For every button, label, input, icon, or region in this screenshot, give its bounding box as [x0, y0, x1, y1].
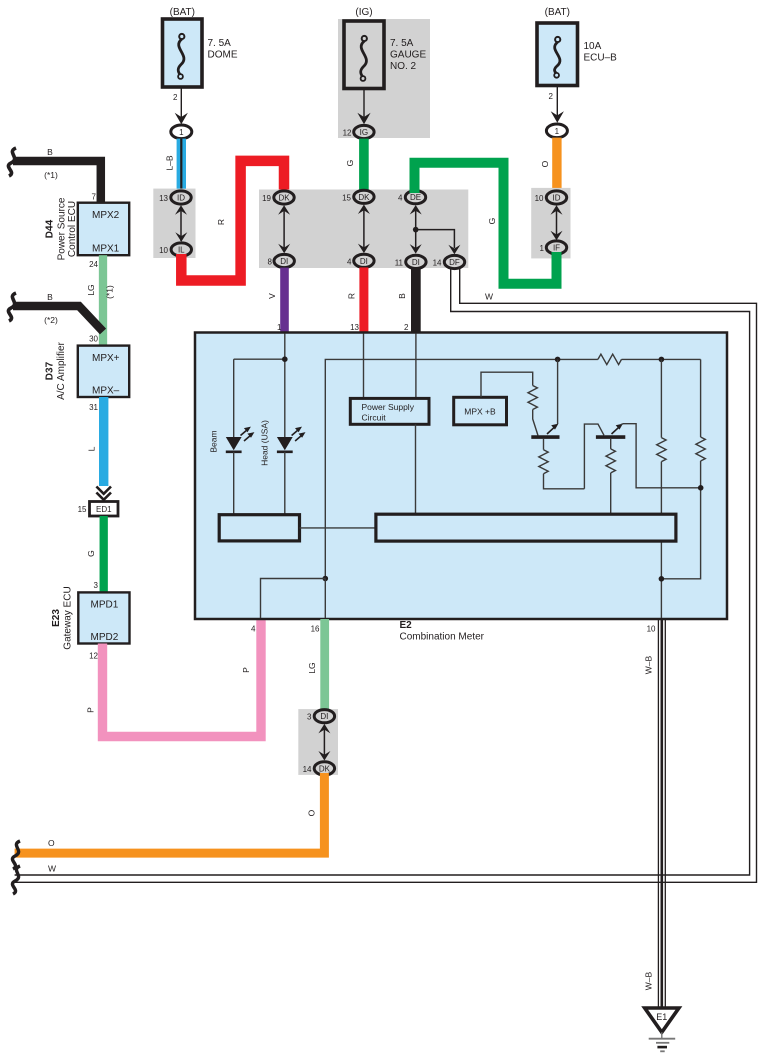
wire LG (*1) — [86, 255, 115, 345]
svg-text:A/C Amplifier: A/C Amplifier — [56, 341, 67, 399]
svg-text:ID: ID — [177, 194, 185, 203]
arrow DI-DK bottom — [318, 724, 330, 761]
wire G to gateway — [86, 516, 108, 592]
svg-text:DE: DE — [410, 193, 421, 202]
svg-text:DK: DK — [358, 193, 370, 202]
svg-text:Power Source: Power Source — [57, 197, 68, 260]
svg-text:(BAT): (BAT) — [545, 7, 570, 18]
svg-text:L–B: L–B — [165, 155, 175, 170]
node pin1 internal line — [284, 334, 286, 438]
resistor rail R1 — [598, 354, 622, 364]
svg-text:3: 3 — [307, 713, 312, 722]
ECU E23 Gateway ECU — [51, 586, 130, 660]
svg-text:7: 7 — [92, 193, 97, 202]
svg-text:31: 31 — [89, 403, 98, 412]
svg-text:LG: LG — [86, 284, 96, 295]
connector ED1 — [78, 502, 118, 517]
node pin13 internal line — [363, 334, 365, 399]
svg-text:Circuit: Circuit — [362, 413, 387, 423]
connector 14 DF — [433, 255, 465, 268]
transistor Q2 — [584, 424, 700, 489]
svg-text:10: 10 — [159, 246, 168, 255]
gauge block left rectangle — [219, 515, 299, 541]
svg-text:16: 16 — [311, 625, 320, 634]
svg-text:IF: IF — [553, 244, 560, 253]
connector 10 ID — [535, 191, 567, 204]
gauge block right rectangle — [376, 514, 676, 541]
svg-text:15: 15 — [342, 193, 351, 202]
svg-text:7. 5A: 7. 5A — [208, 38, 232, 49]
svg-text:4: 4 — [251, 625, 256, 634]
svg-text:2: 2 — [173, 93, 178, 102]
svg-text:1: 1 — [540, 244, 545, 253]
svg-text:G: G — [487, 218, 497, 225]
svg-text:W–B: W–B — [644, 971, 654, 990]
wire B black to meter pin 2 — [397, 269, 421, 334]
svg-text:2: 2 — [549, 92, 554, 101]
transistor Q1 — [531, 359, 559, 449]
wire LG from pin 16 — [307, 619, 329, 710]
fuse lead pin 2 — [173, 87, 188, 124]
gray band connector ID/IL — [153, 189, 195, 258]
svg-text:10: 10 — [535, 194, 544, 203]
svg-text:O: O — [307, 809, 317, 816]
svg-text:ED1: ED1 — [96, 505, 112, 514]
svg-text:MPX–: MPX– — [92, 386, 120, 397]
svg-text:R: R — [347, 293, 357, 299]
node dot rail right — [659, 357, 665, 363]
fuse ECU-B lead pin 2 — [549, 86, 564, 123]
svg-text:10: 10 — [647, 625, 656, 634]
arrow ID-IL — [175, 205, 187, 242]
wire PSU to gauge block — [415, 424, 417, 514]
svg-text:DF: DF — [449, 258, 460, 267]
LED Beam — [209, 427, 255, 515]
svg-text:DI: DI — [360, 257, 368, 266]
svg-text:DI: DI — [412, 258, 420, 267]
svg-text:IG: IG — [360, 128, 368, 137]
fuse 10A ECU-B (BAT) — [537, 7, 617, 86]
connector 1 IF — [540, 241, 567, 254]
resistor emitter Q2 — [606, 449, 615, 514]
connector oval 12 IG — [343, 125, 375, 138]
wire left horizontal branch — [234, 358, 285, 360]
svg-text:8: 8 — [268, 258, 273, 267]
svg-text:P: P — [86, 707, 96, 713]
svg-text:O: O — [48, 838, 55, 848]
fuse 7.5A GAUGE NO.2 (IG) — [344, 7, 426, 89]
gray band connector ID/IF right — [531, 188, 570, 259]
gray band connector DI/DK bottom — [298, 709, 338, 775]
node junction dot pin1 — [282, 356, 288, 362]
svg-text:13: 13 — [350, 323, 359, 332]
svg-text:24: 24 — [89, 260, 98, 269]
svg-text:1: 1 — [179, 128, 184, 137]
svg-text:B: B — [47, 292, 53, 302]
svg-text:30: 30 — [89, 335, 98, 344]
arrow DE-DI with branch to DF — [410, 205, 461, 254]
svg-text:Control ECU: Control ECU — [67, 201, 78, 257]
svg-text:(*1): (*1) — [105, 285, 115, 299]
svg-text:W: W — [48, 864, 56, 874]
svg-text:2: 2 — [404, 323, 409, 332]
wire L blue — [87, 397, 109, 486]
svg-text:DI: DI — [280, 257, 288, 266]
svg-text:15: 15 — [78, 505, 87, 514]
wire pin16 drop with branch to pin4 — [261, 576, 329, 618]
combination meter E2 box — [195, 333, 727, 643]
svg-text:R: R — [216, 219, 226, 225]
svg-text:(BAT): (BAT) — [170, 7, 195, 18]
svg-text:(*1): (*1) — [44, 170, 58, 180]
svg-text:G: G — [86, 550, 96, 557]
svg-text:B: B — [397, 293, 407, 299]
svg-text:E1: E1 — [656, 1012, 667, 1022]
arrow DK-DI mid — [358, 205, 370, 254]
connector 10 IL — [159, 243, 191, 256]
connector 14 DK — [303, 762, 335, 775]
svg-text:19: 19 — [262, 194, 271, 203]
svg-text:O: O — [540, 160, 550, 167]
wire G from IG fuse — [345, 139, 369, 191]
wire beam branch vertical — [233, 359, 235, 437]
arrow ID-IF — [551, 205, 563, 240]
arrow DK-DI left — [278, 205, 290, 253]
svg-text:Beam: Beam — [209, 430, 219, 452]
svg-text:Combination Meter: Combination Meter — [400, 632, 485, 643]
resistor base Q1 — [528, 386, 538, 436]
resistor pull left vertical — [657, 359, 666, 618]
wire P pink route to meter pin 4 — [86, 620, 262, 737]
wire L-B blue with black stripe — [165, 139, 187, 192]
wire R red loop IL to DK — [181, 161, 284, 281]
LED Head (USA) — [260, 420, 306, 515]
svg-text:MPD2: MPD2 — [91, 632, 119, 643]
svg-text:1: 1 — [277, 323, 282, 332]
svg-text:P: P — [241, 667, 251, 673]
connector oval 1 (ECU-B) — [546, 124, 567, 138]
svg-text:12: 12 — [89, 652, 98, 661]
svg-text:MPX +B: MPX +B — [464, 407, 496, 417]
pin labels 4 16 10 — [251, 625, 656, 634]
svg-text:4: 4 — [347, 257, 352, 266]
svg-text:14: 14 — [303, 765, 312, 774]
svg-text:14: 14 — [433, 259, 442, 268]
svg-text:DOME: DOME — [208, 50, 238, 61]
svg-text:W: W — [485, 292, 493, 302]
svg-text:4: 4 — [398, 194, 403, 203]
fuse 7.5A DOME (BAT) — [163, 7, 238, 87]
wire between gauge blocks — [300, 527, 376, 529]
svg-text:D37: D37 — [44, 361, 55, 380]
chevron pass-through arrows above ED1 — [96, 487, 111, 500]
node dot rail left — [555, 357, 561, 363]
svg-text:ID: ID — [553, 194, 561, 203]
svg-text:V: V — [267, 293, 277, 299]
svg-text:10A: 10A — [584, 41, 602, 52]
connector 4 DE — [398, 191, 426, 204]
svg-text:MPX+: MPX+ — [92, 353, 120, 364]
gray panel behind IG fuse — [338, 19, 430, 138]
svg-text:13: 13 — [159, 194, 168, 203]
svg-text:Head (USA): Head (USA) — [260, 420, 270, 466]
fuse IG lead — [357, 89, 370, 125]
connector 15 DK — [342, 190, 374, 203]
wire O orange route to left — [12, 773, 324, 869]
svg-text:W–B: W–B — [644, 655, 654, 674]
svg-text:D44: D44 — [44, 219, 55, 238]
wire W-B from meter pin 10 to ground — [644, 619, 666, 1010]
connector 4 DI mid — [347, 254, 374, 267]
svg-text:1: 1 — [555, 127, 560, 136]
resistor emitter Q1 — [539, 450, 585, 489]
node pin2 internal line — [415, 334, 417, 399]
wire rail to transistors — [325, 359, 598, 578]
ECU D44 Power Source Control ECU — [44, 193, 129, 270]
svg-text:DK: DK — [278, 194, 290, 203]
svg-text:ECU–B: ECU–B — [584, 53, 618, 64]
svg-text:MPD1: MPD1 — [91, 600, 119, 611]
gray band connector DK/DI DE/DF — [259, 190, 468, 269]
wire B (*1) with break — [8, 147, 100, 204]
wire W double-line from DF to right side — [12, 269, 756, 895]
box Power Supply Circuit — [350, 398, 429, 424]
svg-text:IL: IL — [178, 246, 185, 255]
wire rail right segment — [622, 358, 701, 360]
svg-text:B: B — [47, 147, 53, 157]
svg-text:E23: E23 — [51, 609, 62, 627]
svg-text:E2: E2 — [400, 620, 413, 631]
ECU D37 A/C Amplifier — [44, 341, 129, 412]
svg-text:GAUGE: GAUGE — [390, 50, 426, 61]
svg-text:MPX1: MPX1 — [92, 244, 120, 255]
svg-text:12: 12 — [343, 129, 352, 138]
svg-text:Power Supply: Power Supply — [362, 402, 415, 412]
svg-text:11: 11 — [395, 258, 404, 267]
svg-text:L: L — [87, 446, 97, 451]
connector 8 DI — [268, 254, 295, 267]
svg-text:DK: DK — [319, 764, 331, 773]
svg-text:Gateway ECU: Gateway ECU — [63, 586, 74, 649]
wire G green loop IF to DE — [415, 163, 557, 284]
connector 13 ID — [159, 191, 191, 204]
svg-text:7. 5A: 7. 5A — [390, 38, 414, 49]
wire O from ECU-B fuse — [540, 138, 562, 192]
svg-text:3: 3 — [94, 581, 99, 590]
connector 11 DI — [395, 255, 426, 268]
connector oval 1 (DOME) — [171, 125, 192, 139]
wire B (*2) with break — [8, 292, 103, 344]
svg-text:LG: LG — [307, 662, 317, 673]
svg-text:(IG): (IG) — [355, 7, 372, 18]
connector 3 DI — [307, 710, 335, 723]
svg-text:(*2): (*2) — [44, 315, 58, 325]
connector 19 DK — [262, 191, 294, 204]
svg-text:MPX2: MPX2 — [92, 210, 120, 221]
svg-text:DI: DI — [320, 712, 328, 721]
svg-text:G: G — [345, 160, 355, 167]
wire R red to meter pin 13 — [347, 267, 369, 333]
svg-text:NO. 2: NO. 2 — [390, 61, 417, 72]
wire V violet to meter pin 1 — [267, 268, 289, 333]
box MPX +B — [454, 372, 533, 425]
resistor pull right vertical — [659, 359, 706, 581]
ground E1 — [645, 1008, 679, 1051]
